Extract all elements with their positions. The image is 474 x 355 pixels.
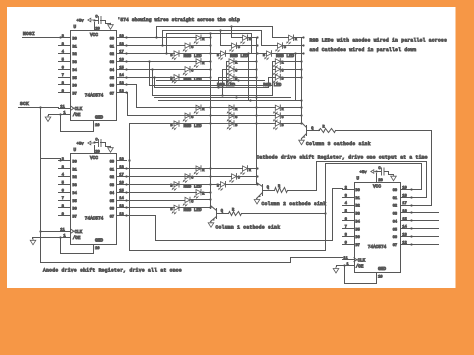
channel bus b — [155, 97, 291, 99]
cathode rail column 3 — [301, 38, 303, 124]
svg-text:CLK: CLK — [358, 259, 366, 263]
wire MOSI to U2 D0 — [41, 159, 61, 161]
wire col3 base to U3 pin17 — [336, 131, 432, 206]
svg-text:D7: D7 — [73, 216, 77, 220]
svg-text:C: C — [235, 70, 237, 74]
ground column 3 sink — [299, 139, 305, 145]
svg-text:13: 13 — [119, 205, 124, 209]
svg-text:R: R — [282, 62, 284, 66]
svg-text:C: C — [235, 116, 237, 120]
anode bus row2 R — [127, 61, 197, 63]
svg-text:D7: D7 — [356, 244, 360, 248]
anode bus row3 C from U1 pin12 — [127, 93, 276, 116]
svg-text:VCC: VCC — [90, 156, 98, 161]
wire U2 O7 to U3 D0 — [127, 189, 343, 241]
svg-text:C: C — [282, 116, 284, 120]
svg-text:O3: O3 — [393, 213, 397, 217]
svg-text:74AC574: 74AC574 — [85, 94, 104, 99]
svg-text:10: 10 — [95, 247, 100, 251]
RGB LED row3 col2 — [229, 105, 234, 110]
anode bus row4 C — [127, 176, 232, 178]
svg-text:C: C — [191, 46, 193, 50]
svg-text:RGB LED: RGB LED — [184, 208, 202, 213]
svg-text:14: 14 — [119, 74, 124, 78]
svg-text:19: 19 — [402, 186, 407, 190]
bypass row1 C — [163, 31, 278, 46]
svg-text:O1: O1 — [110, 168, 114, 172]
svg-text:13: 13 — [119, 82, 124, 86]
svg-text:O7: O7 — [110, 93, 114, 97]
svg-text:O2: O2 — [110, 176, 114, 180]
anode bus row4 B — [127, 184, 221, 186]
svg-text:C: C — [282, 70, 284, 74]
svg-text:11: 11 — [343, 257, 348, 261]
svg-text:+5v: +5v — [360, 171, 368, 175]
svg-text:Column 3 cathode sink: Column 3 cathode sink — [306, 141, 371, 147]
svg-text:D7: D7 — [73, 93, 77, 97]
svg-text:D0: D0 — [356, 189, 360, 193]
svg-text:SCK: SCK — [20, 101, 29, 107]
svg-text:RGB LED: RGB LED — [184, 54, 202, 59]
svg-text:74AC574: 74AC574 — [85, 217, 104, 222]
RGB LED row4 col2 — [243, 166, 248, 171]
channel bus c — [159, 100, 302, 102]
svg-text:D6: D6 — [73, 208, 77, 212]
RGB LED row2 col1 — [196, 59, 201, 64]
svg-text:12: 12 — [119, 90, 124, 94]
svg-text:17: 17 — [119, 174, 124, 178]
svg-text:12: 12 — [402, 241, 407, 245]
svg-text:D5: D5 — [73, 77, 77, 81]
svg-text:C: C — [238, 46, 240, 50]
svg-text:O3: O3 — [110, 184, 114, 188]
svg-text:O4: O4 — [110, 69, 114, 73]
bypass row2 B — [155, 78, 276, 88]
svg-text:16: 16 — [119, 181, 124, 185]
svg-text:D1: D1 — [73, 45, 77, 49]
svg-text:MOSI: MOSI — [23, 31, 35, 37]
ground U3 OE — [343, 264, 345, 266]
svg-text:17: 17 — [402, 202, 407, 206]
svg-text:20: 20 — [378, 179, 383, 183]
RGB LED row5 col1 — [196, 189, 201, 194]
svg-text:RGB LED: RGB LED — [276, 54, 294, 59]
resistor R col3 base — [319, 129, 336, 133]
svg-text:D0: D0 — [73, 161, 77, 165]
svg-text:12: 12 — [119, 213, 124, 217]
svg-text:O5: O5 — [393, 228, 397, 232]
anode bus row1 B — [127, 53, 175, 55]
svg-text:18: 18 — [402, 194, 407, 198]
svg-text:RGB LED: RGB LED — [184, 124, 202, 129]
anode bus row2 C — [127, 69, 185, 71]
svg-text:O6: O6 — [110, 208, 114, 212]
RGB LED row1 col3 — [289, 35, 294, 40]
svg-text:VCC: VCC — [90, 33, 98, 38]
RGB LED row1 col2 — [243, 35, 248, 40]
IC U1 74AC574 — [71, 31, 117, 121]
svg-text:D3: D3 — [356, 213, 360, 217]
svg-text:O5: O5 — [110, 77, 114, 81]
svg-text:C: C — [191, 200, 193, 204]
svg-text:C: C — [191, 177, 193, 181]
svg-text:7: 7 — [345, 226, 347, 230]
svg-text:18: 18 — [119, 43, 124, 47]
svg-text:Cathode drive shift Register,: Cathode drive shift Register, drive one … — [257, 155, 428, 161]
svg-text:VCC: VCC — [373, 184, 381, 189]
svg-text:74AC574: 74AC574 — [368, 245, 387, 250]
anode bus row5 R — [127, 192, 197, 194]
svg-text:D6: D6 — [356, 236, 360, 240]
cathode rail column 1 — [210, 38, 212, 209]
svg-text:D1: D1 — [356, 197, 360, 201]
svg-text:D2: D2 — [356, 205, 360, 209]
wire col2 base to U3 pin18 — [288, 162, 427, 198]
svg-text:7: 7 — [62, 74, 64, 78]
svg-text:D2: D2 — [73, 176, 77, 180]
svg-text:O1: O1 — [393, 197, 397, 201]
svg-text:CLK: CLK — [75, 108, 83, 112]
resistor R col1 base — [229, 212, 242, 216]
anode bus row2 B — [127, 77, 175, 79]
svg-text:15: 15 — [119, 189, 124, 193]
anode bus row4 R — [127, 168, 243, 170]
svg-text:B: B — [235, 124, 237, 128]
wire U3 OE to GND pin — [345, 266, 377, 284]
IC U3 74AC574 — [355, 183, 401, 273]
svg-text:Q: Q — [221, 210, 223, 214]
svg-text:B: B — [282, 124, 284, 128]
svg-text:C: C — [284, 46, 286, 50]
transistor column 3 sink — [306, 126, 308, 136]
svg-text:D4: D4 — [356, 220, 360, 224]
svg-text:10: 10 — [95, 124, 100, 128]
white schematic sheet — [7, 7, 456, 288]
svg-text:O0: O0 — [110, 38, 114, 42]
svg-text:O2: O2 — [110, 53, 114, 57]
RGB LED row1 col1 — [196, 35, 201, 40]
svg-text:O2: O2 — [393, 205, 397, 209]
svg-text:O4: O4 — [110, 192, 114, 196]
anode bus row5 C — [127, 200, 185, 202]
inner vertical col2 — [248, 54, 250, 101]
svg-text:O0: O0 — [110, 161, 114, 165]
svg-text:O1: O1 — [110, 45, 114, 49]
svg-text:D6: D6 — [73, 85, 77, 89]
channel bus a — [157, 80, 265, 82]
ground column 2 sink — [254, 198, 260, 204]
wire U1 OE to GND pin — [61, 115, 94, 132]
svg-text:C: C — [191, 70, 193, 74]
svg-text:D4: D4 — [73, 192, 77, 196]
anode bus row1 R — [127, 37, 197, 39]
anode bus row3 B from U2 pin19 — [130, 124, 276, 161]
svg-text:'574 showing wires straight ac: '574 showing wires straight across the c… — [118, 17, 241, 23]
RGB LED row3 col1 — [196, 105, 201, 110]
svg-text:C: C — [191, 116, 193, 120]
svg-text:+5v: +5v — [77, 143, 85, 147]
svg-text:Q: Q — [267, 186, 269, 190]
svg-text:/OE: /OE — [73, 236, 81, 241]
svg-text:D5: D5 — [73, 200, 77, 204]
svg-text:11: 11 — [60, 105, 65, 109]
svg-text:D1: D1 — [73, 168, 77, 172]
bypass row2 C — [153, 70, 276, 96]
svg-text:Column 2 cathode sink: Column 2 cathode sink — [262, 201, 327, 207]
svg-text:D3: D3 — [73, 61, 77, 65]
anode bus row3 R from U1 pin13 — [127, 85, 276, 108]
ground column 1 sink — [208, 221, 214, 227]
svg-text:O6: O6 — [110, 85, 114, 89]
wire U2 OE to GND pin — [61, 238, 94, 254]
svg-text:O0: O0 — [393, 189, 397, 193]
svg-text:D5: D5 — [356, 228, 360, 232]
svg-text:/OE: /OE — [356, 264, 364, 269]
wire col1 base to U3 pin19 — [242, 164, 422, 214]
svg-text:GND: GND — [95, 115, 103, 120]
svg-text:O7: O7 — [110, 216, 114, 220]
svg-text:GND: GND — [378, 267, 386, 272]
svg-text:20: 20 — [95, 150, 100, 154]
svg-text:D3: D3 — [73, 184, 77, 188]
transistor column 2 sink — [262, 185, 264, 196]
bypass row1 B — [167, 34, 267, 54]
svg-text:+5v: +5v — [77, 20, 85, 24]
svg-text:RGB LED: RGB LED — [230, 54, 248, 59]
svg-text:14: 14 — [119, 197, 124, 201]
svg-text:18: 18 — [119, 166, 124, 170]
bus mid — [130, 124, 326, 251]
bypass row2 R — [150, 62, 276, 86]
svg-text:O5: O5 — [110, 200, 114, 204]
U3 unused outputs — [411, 212, 439, 214]
RGB LED row3 col3 — [275, 105, 280, 110]
svg-text:16: 16 — [402, 210, 407, 214]
wire SCK chain down — [39, 106, 41, 108]
svg-text:Column 1 cathode sink: Column 1 cathode sink — [216, 224, 281, 230]
IC U2 74AC574 — [71, 154, 117, 245]
svg-text:D4: D4 — [73, 69, 77, 73]
svg-text:19: 19 — [119, 35, 124, 39]
svg-text:D0: D0 — [73, 38, 77, 42]
svg-text:R: R — [235, 108, 237, 112]
svg-text:20: 20 — [95, 27, 100, 31]
transistor column 1 sink — [216, 209, 218, 219]
svg-text:O4: O4 — [393, 220, 397, 224]
svg-text:R: R — [282, 108, 284, 112]
anode bus row5 B — [127, 207, 175, 209]
svg-text:7: 7 — [62, 197, 64, 201]
svg-text:15: 15 — [402, 218, 407, 222]
svg-text:11: 11 — [60, 228, 65, 232]
svg-text:19: 19 — [119, 158, 124, 162]
anode bus row1 C — [127, 45, 185, 47]
svg-text:O3: O3 — [110, 61, 114, 65]
inner vertical col3 — [295, 54, 297, 101]
svg-text:D2: D2 — [73, 53, 77, 57]
svg-text:Anode drive shift Register, dr: Anode drive shift Register, drive all at… — [43, 267, 182, 273]
svg-text:O6: O6 — [393, 236, 397, 240]
svg-text:R: R — [235, 62, 237, 66]
RGB LED row2 col2 — [229, 59, 234, 64]
RGB LED row2 col3 — [275, 59, 280, 64]
svg-text:GND: GND — [95, 238, 103, 243]
resistor R col2 base — [275, 188, 288, 193]
svg-text:13: 13 — [402, 234, 407, 238]
cathode rail column 2 — [256, 38, 258, 185]
svg-text:14: 14 — [402, 226, 407, 230]
ground U2 OE — [59, 236, 61, 238]
svg-text:CLK: CLK — [75, 231, 83, 235]
svg-text:and Cathodes wired in parallel: and Cathodes wired in parallel down — [310, 47, 417, 53]
bypass row1 R — [157, 27, 289, 38]
svg-text:10: 10 — [378, 276, 383, 280]
RGB LED row4 col1 — [196, 166, 201, 171]
svg-text:15: 15 — [119, 66, 124, 70]
svg-text:RGB LED: RGB LED — [184, 185, 202, 190]
svg-text:RGB LEDs with anodes wired in: RGB LEDs with anodes wired in parallel a… — [310, 37, 448, 43]
svg-text:C: C — [238, 177, 240, 181]
ground U1 OE — [59, 113, 61, 115]
svg-text:O7: O7 — [393, 244, 397, 248]
svg-text:17: 17 — [119, 51, 124, 55]
svg-text:16: 16 — [119, 58, 124, 62]
svg-text:Q: Q — [311, 127, 313, 131]
svg-text:/OE: /OE — [73, 113, 81, 118]
